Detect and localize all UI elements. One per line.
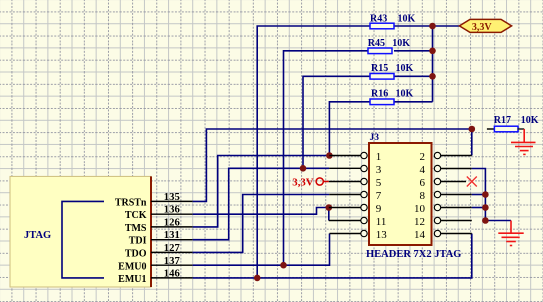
svg-text:12: 12	[414, 216, 425, 228]
svg-text:131: 131	[164, 229, 180, 241]
svg-text:JTAG: JTAG	[24, 230, 51, 241]
junction TCK pin9	[326, 204, 333, 211]
pin TRSTn	[115, 197, 193, 208]
header pin 5	[329, 177, 382, 189]
svg-text:TDO: TDO	[125, 249, 147, 260]
wire TMS up to pin1 row	[193, 156, 330, 227]
svg-text:R15: R15	[371, 63, 388, 74]
pin TDI	[129, 236, 193, 247]
junction gnd/pin8	[482, 191, 489, 198]
wire TRSTn down to header pin 2	[471, 129, 473, 156]
wire 3.3V bus vertical right of resistors	[432, 26, 434, 102]
junction gnd/pin12	[482, 217, 489, 224]
svg-text:137: 137	[164, 255, 181, 267]
header pin 7	[329, 190, 382, 202]
wire TRSTn up-and-over to R17	[193, 129, 472, 201]
wire R45 right lead	[394, 50, 433, 52]
junction bus/R43	[429, 23, 436, 30]
wire R43 right lead to 3.3V flag	[394, 25, 459, 27]
svg-text:14: 14	[414, 229, 426, 241]
header pin 13	[330, 229, 388, 241]
svg-text:10K: 10K	[392, 38, 410, 49]
svg-text:3,3V: 3,3V	[292, 177, 313, 189]
wire TDO up to pin7 row	[193, 195, 330, 253]
wire R16 right lead	[394, 101, 433, 103]
svg-text:TCK: TCK	[125, 210, 147, 221]
wire pin4 to ground bus	[472, 169, 486, 221]
pin TCK	[125, 210, 193, 221]
pin EMU1	[118, 274, 193, 285]
header pin 11	[329, 216, 387, 228]
header pin 3	[329, 164, 382, 176]
wire EMU0 to pin13	[193, 234, 330, 266]
svg-text:146: 146	[164, 268, 181, 280]
svg-text:11: 11	[376, 216, 387, 228]
wire TDI up to pin3 row	[193, 168, 330, 239]
header pin 2	[420, 151, 472, 163]
svg-text:10K: 10K	[398, 13, 416, 24]
wire pin10 stub	[472, 207, 486, 209]
wire R17 left lead	[487, 128, 495, 130]
wire pin8 stub	[472, 194, 486, 196]
svg-text:3: 3	[376, 164, 382, 176]
svg-text:R43: R43	[370, 13, 387, 24]
junction EMU0/R45	[280, 262, 287, 269]
wire R16 pull-up vertical	[329, 102, 370, 156]
svg-text:R45: R45	[368, 38, 385, 49]
svg-text:R17: R17	[494, 115, 511, 126]
svg-text:2: 2	[420, 151, 426, 163]
svg-text:EMU1: EMU1	[118, 274, 146, 285]
header pin 4	[420, 164, 472, 176]
header pin 14	[414, 229, 472, 241]
pin EMU0	[118, 261, 193, 272]
junction TMS/R16/pin1	[326, 152, 333, 159]
wire TCK to pin9 with step	[193, 208, 329, 215]
bracket inside JTAG box	[62, 201, 104, 278]
wire ground bus to ground symbol	[485, 220, 511, 222]
header pin 10	[414, 203, 472, 215]
header pin 8	[420, 190, 472, 202]
ground symbol at header pin 12 net	[498, 221, 523, 246]
header pin 6	[420, 177, 467, 189]
svg-text:TRSTn: TRSTn	[115, 197, 147, 208]
JTAG sheet-symbol box	[10, 176, 151, 287]
svg-text:10K: 10K	[396, 88, 414, 99]
ground symbol at R17	[518, 128, 525, 130]
wire R15 pull-up vertical	[303, 76, 370, 168]
wire R15 right lead	[394, 75, 433, 77]
svg-text:10K: 10K	[396, 63, 414, 74]
svg-text:1: 1	[376, 151, 382, 163]
junction gnd/pin10	[482, 204, 489, 211]
junction TRSTn/R17/pin2	[469, 126, 476, 133]
header pin 12	[414, 216, 472, 228]
svg-text:6: 6	[420, 177, 426, 189]
svg-text:5: 5	[376, 177, 382, 189]
svg-text:10: 10	[414, 203, 426, 215]
junction TDI/R15/pin3	[300, 165, 307, 172]
svg-text:EMU0: EMU0	[118, 261, 146, 272]
wire pin9 to pin11	[328, 208, 330, 221]
svg-text:136: 136	[164, 204, 181, 216]
junction bus/R15	[429, 73, 436, 80]
svg-text:3,3V: 3,3V	[472, 22, 493, 33]
svg-text:135: 135	[164, 191, 180, 203]
svg-text:126: 126	[164, 216, 181, 228]
header pin 1	[329, 151, 381, 163]
svg-text:10K: 10K	[521, 115, 539, 126]
resistor R16	[370, 88, 414, 104]
svg-text:R16: R16	[371, 88, 388, 99]
svg-text:13: 13	[376, 229, 388, 241]
svg-text:TDI: TDI	[129, 236, 147, 247]
power port 3.3V at header pin 5	[292, 177, 329, 189]
resistor R17	[494, 115, 539, 132]
svg-text:127: 127	[164, 242, 181, 254]
resistor R45	[368, 38, 411, 54]
power flag 3.3V	[459, 19, 511, 32]
wire R45 pull-up vertical	[284, 51, 371, 265]
resistor R15	[370, 63, 414, 79]
junction bus/R45	[429, 48, 436, 55]
svg-text:8: 8	[420, 190, 426, 202]
pin TDO	[125, 249, 193, 260]
svg-text:4: 4	[420, 164, 426, 176]
svg-text:9: 9	[376, 203, 382, 215]
svg-text:TMS: TMS	[125, 223, 147, 234]
header pin 9	[329, 203, 382, 215]
svg-text:7: 7	[376, 190, 382, 202]
no-ERC marker X on pin 6	[467, 177, 477, 187]
wire R43 pull-up vertical	[257, 26, 370, 278]
header J3 box	[369, 133, 432, 245]
resistor R43	[370, 13, 416, 29]
svg-text:HEADER 7X2 JTAG: HEADER 7X2 JTAG	[366, 249, 461, 260]
pin TMS	[125, 223, 193, 234]
wire EMU1 long run to pin14	[193, 234, 472, 278]
junction EMU1/R43	[254, 275, 261, 282]
svg-text:J3: J3	[370, 133, 380, 143]
